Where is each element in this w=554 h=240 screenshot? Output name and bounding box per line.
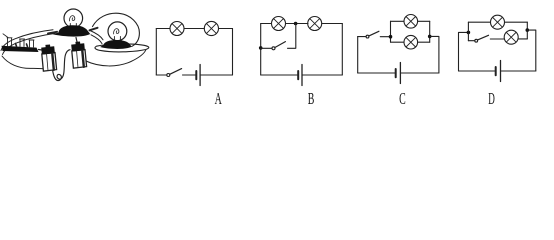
wire C right side — [430, 36, 439, 73]
wire (pictorial, bottom-left sweep) — [2, 56, 49, 69]
wire D branch stubs — [490, 38, 527, 40]
wire B branch left stub — [261, 47, 272, 49]
lamp L1 (C, top branch) — [404, 14, 418, 28]
wire (pictorial, top band outer) — [1, 30, 53, 51]
switch S (C, open) — [366, 35, 369, 38]
lamp L2 (C, bottom branch) — [404, 35, 418, 49]
junction node (C, left) — [389, 35, 393, 39]
wire A bottom — [156, 74, 232, 76]
bulb L1 socket (pictorial) — [48, 25, 98, 36]
wire B left side — [260, 24, 262, 76]
lamp L2 (A) — [204, 21, 218, 35]
lamp L1 (B) — [272, 17, 286, 31]
battery cell (C) — [395, 69, 397, 77]
lamp L2 (D, bottom branch) — [504, 30, 518, 44]
battery cell (B) — [297, 71, 299, 79]
knife switch S (pictorial, left) — [2, 34, 39, 52]
junction node (D, right) — [526, 28, 530, 32]
junction node (B, left wire) — [259, 46, 263, 50]
wire (pictorial, top band inner) — [3, 33, 56, 54]
wire B top — [261, 23, 343, 25]
wire D right exit — [527, 30, 536, 71]
lamp L2 (B) — [308, 17, 322, 31]
lamp L1 (A) — [170, 22, 184, 36]
lamp L1 (D, top branch) — [491, 15, 505, 29]
battery cell (D) — [495, 67, 497, 75]
battery cell 1 (pictorial, left) — [41, 45, 56, 72]
bulb L2 (pictorial, right) — [108, 22, 127, 41]
wire D branch elbow — [468, 40, 474, 42]
wire D bottom — [459, 70, 536, 72]
bulb L2 socket (pictorial) — [100, 40, 132, 49]
switch S (D, open) — [475, 39, 478, 42]
battery cell 2 (pictorial, right) — [71, 42, 86, 69]
svg-text:C: C — [399, 89, 406, 108]
wire D right column — [526, 22, 528, 39]
wire D top rail — [468, 21, 527, 23]
socket base plate under bulb 2 — [95, 44, 149, 52]
wire D left column — [467, 22, 469, 41]
wire C switch stub right — [380, 36, 390, 38]
switch S (B, open) — [272, 47, 275, 50]
switch S (A, open) — [167, 74, 170, 77]
wire C bottom rail — [391, 41, 430, 43]
wire A left side — [155, 29, 157, 76]
wire (pictorial, socket1 to socket2 lower) — [91, 35, 102, 44]
junction node (B, top wire between lamps) — [294, 22, 298, 26]
wire C parallel box columns — [391, 21, 430, 42]
wire (pictorial, bottom-right sweep) — [86, 50, 146, 66]
svg-text:A: A — [215, 89, 223, 108]
wire A right side — [232, 29, 234, 76]
wire C bottom — [358, 72, 439, 74]
wire (pictorial, loop around bulb 2) — [93, 13, 140, 46]
wire C left side — [357, 37, 359, 73]
svg-text:B: B — [308, 89, 315, 108]
wire A top — [156, 28, 232, 30]
bulb L1 (pictorial, top middle) — [64, 9, 83, 28]
wire (pictorial, socket1 to cell 2 cap) — [76, 38, 78, 45]
junction node (D, left) — [467, 31, 471, 35]
wire D left side — [459, 32, 467, 71]
junction node (C, right) — [428, 35, 432, 39]
svg-text:D: D — [488, 89, 495, 108]
wire C switch stub left — [358, 36, 366, 38]
wire (pictorial, socket1 to socket2 upper) — [90, 31, 103, 40]
battery cell (A) — [195, 71, 197, 79]
wire B right side — [341, 24, 343, 76]
wire B bottom — [261, 74, 343, 76]
wire C top rail — [391, 20, 430, 22]
wire (pictorial, switch base to cell 1) — [39, 49, 44, 52]
wire B branch right stub and riser — [288, 24, 296, 49]
wire (pictorial, coiled loop between cells) — [53, 50, 71, 81]
